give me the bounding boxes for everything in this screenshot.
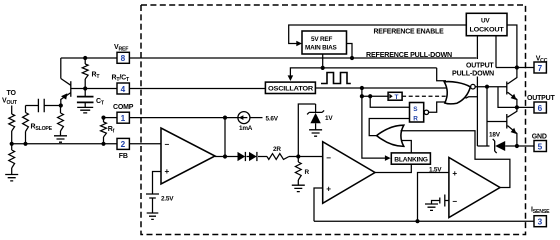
resistor (emitter to ground) <box>58 106 64 136</box>
transistor Q1 buffer <box>61 58 85 106</box>
wire FB line internal <box>129 143 161 145</box>
junction Rf top <box>101 116 105 120</box>
ground (emitter resistor) <box>54 136 67 142</box>
junction output pin node <box>515 105 519 109</box>
svg-text:PULL-DOWN: PULL-DOWN <box>452 71 494 78</box>
pin 4 RT/CT <box>112 74 130 94</box>
resistor divider lower <box>9 144 15 175</box>
net label REFERENCE ENABLE <box>374 29 445 36</box>
transistor Q2 (upper) <box>507 68 517 108</box>
wire blanking to OR gate <box>399 141 411 153</box>
svg-text:8: 8 <box>121 54 126 63</box>
wire reference enable into bias box <box>289 25 467 46</box>
wire output line <box>517 106 534 108</box>
op-amp current comparator <box>323 142 375 204</box>
svg-text:3: 3 <box>538 218 543 227</box>
resistor Rf <box>101 118 115 144</box>
wire nor output <box>475 86 507 88</box>
wire blanking drop <box>362 96 391 161</box>
diode D2 <box>247 152 268 161</box>
wire latch output to gate <box>429 102 445 112</box>
current source 1mA <box>238 112 253 132</box>
wire pin4 line to oscillator <box>129 88 265 90</box>
svg-text:1V: 1V <box>325 115 333 122</box>
svg-text:COMP: COMP <box>113 104 134 111</box>
svg-text:−: − <box>165 140 170 149</box>
wire main bias line <box>288 68 437 81</box>
junction vcc <box>515 65 519 69</box>
op-amp error amplifier <box>161 128 215 184</box>
wire lower base tap <box>487 121 507 123</box>
junction divider node <box>296 154 300 158</box>
svg-text:LOCKOUT: LOCKOUT <box>470 26 504 33</box>
svg-text:UV: UV <box>481 17 490 24</box>
svg-text:−: − <box>452 197 457 206</box>
svg-text:BLANKING: BLANKING <box>394 156 428 163</box>
latch S R <box>410 103 429 123</box>
wire VREF line internal <box>129 57 476 59</box>
wire output feedback <box>498 87 517 108</box>
zener diode 18V <box>477 132 517 154</box>
box UV LOCKOUT <box>466 13 507 35</box>
battery 1.5V <box>429 167 449 207</box>
svg-text:18V: 18V <box>489 132 501 139</box>
svg-text:+: + <box>452 169 457 178</box>
svg-text:REFERENCE ENABLE: REFERENCE ENABLE <box>374 29 445 36</box>
junction COMP node <box>223 116 227 120</box>
svg-text:1.5V: 1.5V <box>429 167 442 174</box>
svg-text:7: 7 <box>538 64 543 73</box>
pin 6 OUTPUT <box>527 95 556 113</box>
junction oscillator output <box>360 86 364 90</box>
wire Isense line <box>314 220 534 222</box>
transistor Q3 (lower) <box>507 107 517 146</box>
wire output pull-down <box>476 36 478 146</box>
junction OC plus / Isense <box>415 219 419 223</box>
svg-text:6: 6 <box>538 104 543 113</box>
ground (divider) <box>5 175 18 181</box>
junction Rf bottom <box>101 142 105 146</box>
battery 2.5V <box>146 194 174 213</box>
wire clock to T flip-flop <box>362 95 388 97</box>
resistor RT <box>82 58 100 89</box>
wire from VOUT down to divider <box>11 106 13 115</box>
wire clock branch down <box>361 88 363 96</box>
svg-text:5: 5 <box>538 142 543 151</box>
svg-text:MAIN BIAS: MAIN BIAS <box>305 45 338 52</box>
svg-text:FB: FB <box>119 153 128 160</box>
junction VREF line / RT <box>83 56 87 60</box>
svg-text:OUTPUT: OUTPUT <box>527 95 556 102</box>
svg-text:R: R <box>413 116 418 123</box>
svg-text:+: + <box>165 167 170 176</box>
node junction FB rail left <box>10 142 14 146</box>
node 5.6V <box>250 116 279 123</box>
pin 7 VCC <box>534 55 548 73</box>
junction RSLOPE bottom <box>23 142 27 146</box>
wire bias to nor input <box>437 68 446 81</box>
wire VREF line external <box>61 57 117 59</box>
zener diode 1V <box>307 104 333 130</box>
junction nor output <box>485 85 489 89</box>
ground (1.5V battery) <box>425 204 438 210</box>
wire OC plus input <box>418 173 449 222</box>
node emitter junction <box>59 103 63 107</box>
svg-text:5.6V: 5.6V <box>266 116 279 123</box>
svg-text:1: 1 <box>121 114 126 123</box>
oscillator clock waveform <box>321 73 351 84</box>
pin 3 ISENSE <box>531 207 550 227</box>
pin 1 COMP <box>113 104 134 123</box>
wire CC plus input <box>314 188 323 221</box>
ground (R) <box>292 185 305 191</box>
box BLANKING <box>391 153 430 164</box>
svg-text:OUTPUT: OUTPUT <box>466 63 494 70</box>
node TO VOUT label <box>2 90 18 106</box>
svg-text:4: 4 <box>121 85 126 94</box>
box OSCILLATOR <box>265 82 315 93</box>
junction VREF line / bias <box>350 56 354 60</box>
op-amp overcurrent comparator <box>449 158 500 218</box>
resistor 2R <box>267 146 323 159</box>
wire T output dashed <box>402 95 446 97</box>
svg-text:1mA: 1mA <box>239 125 253 132</box>
nor-gate output driver <box>444 82 477 104</box>
svg-text:T: T <box>395 94 399 101</box>
net label OUTPUT PULL-DOWN <box>452 59 495 78</box>
junction EA output <box>223 154 227 158</box>
svg-text:R: R <box>305 169 310 176</box>
wire UV lockout vcc sense right <box>507 25 517 68</box>
toggle flip-flop T <box>388 92 402 101</box>
junction clock branch a <box>360 94 364 98</box>
svg-text:OSCILLATOR: OSCILLATOR <box>268 86 314 93</box>
svg-text:−: − <box>326 153 331 162</box>
wire FB rail <box>12 143 117 145</box>
or-gate R drive (faces left) <box>377 125 404 146</box>
junction RT/CT node <box>83 86 87 90</box>
wire bias box to VREF line <box>347 44 353 59</box>
svg-text:GND: GND <box>532 133 547 140</box>
wire overcurrent comparator loop <box>401 131 510 188</box>
wire EA plus input <box>153 172 162 195</box>
resistor RSLOPE <box>23 106 53 144</box>
wire UV lockout to vcc line <box>495 36 497 68</box>
wire bias box bottom <box>322 54 324 68</box>
wire COMP external <box>104 117 118 119</box>
wire oscillator output <box>315 87 450 89</box>
junction bias line <box>321 66 325 70</box>
svg-text:2.5V: 2.5V <box>161 196 174 203</box>
wire nor to lower base <box>486 87 488 146</box>
diode D1 <box>238 152 246 161</box>
pin 2 FB <box>117 138 129 160</box>
wire 1V zener stub <box>298 104 315 157</box>
wire comparator to blanking <box>375 164 411 172</box>
ground (2.5V battery) <box>147 213 159 219</box>
wire gnd line <box>517 145 534 147</box>
svg-text:+: + <box>326 184 331 193</box>
resistor divider upper <box>9 114 15 144</box>
svg-text:REFERENCE PULL-DOWN: REFERENCE PULL-DOWN <box>366 52 452 59</box>
wire COMP to EA output <box>224 118 226 157</box>
wire pin4 to RT/CT node <box>85 88 117 90</box>
box 5V REF MAIN BIAS <box>302 31 347 54</box>
ground (CT) <box>77 107 93 113</box>
wire EA output line <box>215 156 238 158</box>
pin 8 VREF <box>114 44 129 63</box>
wire COMP line internal <box>129 117 239 119</box>
pin 5 GND <box>532 133 547 151</box>
wire S input <box>370 96 409 107</box>
svg-text:5V REF: 5V REF <box>311 36 332 43</box>
net label REFERENCE PULL-DOWN <box>366 52 452 59</box>
resistor R <box>295 157 309 186</box>
svg-text:2R: 2R <box>273 146 281 153</box>
junction gnd node <box>515 144 519 148</box>
wire OR output to latch R <box>369 119 409 136</box>
capacitor (slope coupling) <box>26 99 61 113</box>
svg-text:TO: TO <box>7 90 17 97</box>
junction clock branch b <box>368 94 372 98</box>
wire vcc line <box>496 67 534 69</box>
capacitor CT <box>77 89 105 108</box>
IC boundary dashed box <box>141 5 526 235</box>
ground (1V zener) <box>309 130 322 136</box>
svg-text:2: 2 <box>121 140 126 149</box>
